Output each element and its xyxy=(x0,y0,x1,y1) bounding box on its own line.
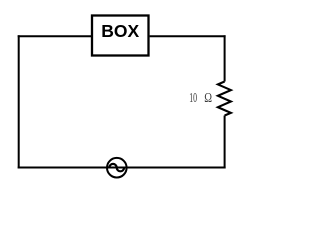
wire: right vertical lower (from resistor) xyxy=(224,116,226,169)
wire: top-right horizontal from BOX right to top-right corner xyxy=(150,35,226,37)
AC source V1 circle xyxy=(107,158,127,178)
BOX (black-box component) xyxy=(92,16,149,56)
AC source sine wave xyxy=(109,164,124,171)
wire: left vertical xyxy=(18,35,20,168)
resistor R (zigzag) xyxy=(218,82,231,116)
wire: bottom horizontal xyxy=(18,167,226,169)
wire: right vertical upper (to resistor) xyxy=(224,35,226,81)
svg-text:Ω: Ω xyxy=(204,89,212,105)
wire: top-left horizontal from corner to BOX left xyxy=(18,35,91,37)
svg-text:10: 10 xyxy=(189,91,197,106)
svg-text:BOX: BOX xyxy=(101,21,139,41)
